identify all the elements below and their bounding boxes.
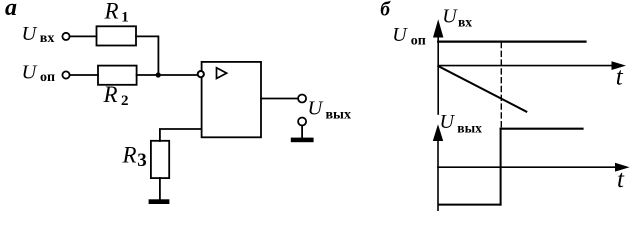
wire bbox=[301, 126, 303, 138]
wire bbox=[136, 36, 158, 75]
resistor R2 bbox=[98, 66, 137, 85]
svg-text:оп: оп bbox=[411, 34, 426, 49]
label t (upper) bbox=[616, 64, 624, 91]
label t (lower) bbox=[617, 166, 625, 193]
label Uвх (axis) bbox=[442, 6, 472, 30]
svg-text:U: U bbox=[308, 98, 324, 120]
svg-text:б: б bbox=[380, 0, 391, 21]
output terminal bbox=[298, 95, 306, 103]
svg-text:вых: вых bbox=[457, 121, 482, 136]
input terminal Uвх bbox=[62, 33, 69, 40]
label Uоп (level) bbox=[392, 24, 426, 49]
input ramp bbox=[438, 66, 526, 111]
svg-text:U: U bbox=[22, 23, 38, 45]
label Uоп bbox=[22, 62, 56, 85]
svg-text:вх: вх bbox=[40, 31, 55, 46]
svg-text:t: t bbox=[617, 166, 625, 193]
Uвых axis (lower graph) bbox=[437, 136, 439, 211]
svg-text:U: U bbox=[440, 111, 456, 133]
label Uвх bbox=[22, 23, 55, 46]
output wire bbox=[261, 98, 298, 100]
svg-text:а: а bbox=[5, 0, 17, 21]
amplifier triangle symbol bbox=[217, 68, 227, 79]
svg-text:U: U bbox=[22, 62, 38, 84]
label R2 bbox=[103, 82, 129, 109]
svg-text:1: 1 bbox=[121, 9, 129, 25]
junction node bbox=[156, 72, 161, 77]
svg-text:U: U bbox=[442, 6, 458, 28]
t axis (upper graph) bbox=[438, 65, 614, 67]
svg-text:t: t bbox=[616, 64, 624, 91]
Uоп level line bbox=[438, 40, 585, 42]
ground bbox=[291, 138, 314, 143]
label R3 bbox=[122, 143, 147, 172]
ground bbox=[149, 199, 170, 204]
label b (figure part b) bbox=[380, 0, 391, 21]
wire bbox=[70, 35, 97, 37]
svg-text:вх: вх bbox=[458, 15, 472, 30]
wire bbox=[159, 178, 161, 199]
svg-text:2: 2 bbox=[121, 93, 129, 109]
svg-text:R: R bbox=[104, 0, 119, 24]
svg-text:R: R bbox=[103, 82, 118, 107]
t axis (lower graph) bbox=[438, 166, 618, 168]
svg-text:вых: вых bbox=[326, 108, 352, 123]
wire to R3 bbox=[160, 129, 202, 141]
inverting input bubble bbox=[198, 71, 204, 77]
wire bbox=[137, 74, 199, 76]
output waveform step bbox=[500, 129, 502, 205]
label R1 bbox=[104, 0, 129, 25]
svg-text:R: R bbox=[122, 143, 137, 168]
wire bbox=[70, 74, 98, 76]
dashed timing line bbox=[500, 43, 502, 128]
input terminal Uоп bbox=[62, 71, 69, 78]
svg-text:оп: оп bbox=[40, 70, 55, 85]
op-amp U1 body bbox=[202, 62, 261, 137]
ground terminal bbox=[298, 118, 306, 126]
Uвх axis (upper graph) bbox=[437, 32, 439, 114]
label a (figure part a) bbox=[5, 0, 17, 21]
svg-text:3: 3 bbox=[137, 150, 147, 171]
output waveform low level bbox=[439, 204, 501, 206]
resistor R1 bbox=[97, 26, 137, 45]
output waveform high level bbox=[501, 128, 583, 130]
label Uвых bbox=[308, 98, 352, 123]
resistor R3 bbox=[151, 141, 169, 178]
label Uвых (axis) bbox=[440, 111, 483, 136]
svg-text:U: U bbox=[392, 24, 408, 46]
